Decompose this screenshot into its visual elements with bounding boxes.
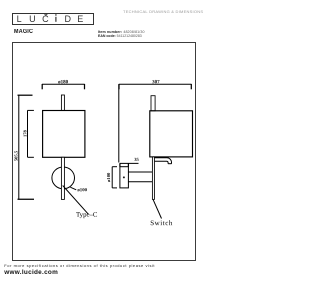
svg-text:35: 35 — [134, 157, 139, 162]
svg-text:178: 178 — [23, 129, 28, 137]
svg-text:ø100: ø100 — [77, 188, 87, 193]
svg-text:ø180: ø180 — [58, 80, 69, 85]
svg-text:505.5: 505.5 — [13, 150, 18, 161]
svg-text:ø100: ø100 — [106, 172, 111, 182]
svg-text:307: 307 — [152, 80, 160, 85]
svg-text:Type–C: Type–C — [76, 212, 98, 219]
svg-text:Switch: Switch — [150, 219, 173, 227]
